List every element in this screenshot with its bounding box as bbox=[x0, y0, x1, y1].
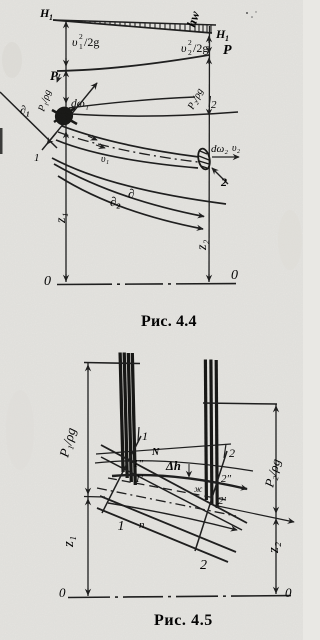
flow arrowhead on axis bbox=[96, 145, 105, 148]
scan noise overlay bbox=[0, 0, 1, 1]
page-edge smudge bbox=[0, 128, 3, 154]
hatching of head-loss wedge bbox=[75, 21, 211, 33]
node 1 label (top of section 1) bbox=[138, 427, 139, 441]
specks near top right bbox=[246, 12, 248, 14]
dashed level line 1'-2' bbox=[108, 478, 226, 500]
wire: right vertical dimension line at section 2 bbox=[208, 26, 211, 282]
energy head line H1-H1 (top edge of loss wedge) bbox=[53, 20, 216, 25]
pipe lower wall (inner) bbox=[100, 496, 236, 552]
node 2 label (top of section 2) bbox=[224, 444, 226, 458]
streamline C2 (upper, fading out) bbox=[69, 97, 195, 108]
streamline crossing section 2 level (line 2) bbox=[71, 112, 238, 116]
wire: datum baseline 0-0 of fig 4.4 bbox=[57, 284, 246, 285]
lower level line with arrow bbox=[108, 503, 237, 530]
dash-dot level line bbox=[97, 488, 236, 516]
wire: datum baseline 0-0 of fig 4.5 bbox=[68, 596, 297, 598]
flow arrowhead on C4 bbox=[88, 136, 97, 140]
cross-section dw1 (dark blob) bbox=[52, 104, 77, 129]
streamline L2 (arrow at right vertical) bbox=[54, 164, 204, 217]
streamline C6 to bottom of dw2 bbox=[56, 140, 198, 168]
velocity arrow v2 bbox=[212, 156, 239, 158]
section line 1-1 through dw1 bbox=[42, 83, 97, 150]
section line 2-2 bbox=[195, 451, 227, 551]
pipe lower wall (outer) bbox=[97, 508, 228, 562]
right dimension line (p2/rho-g and z2) bbox=[275, 404, 277, 594]
water level tick in left piezometer bbox=[84, 363, 140, 364]
streamline C4 to top of dw2 bbox=[62, 126, 199, 157]
pipe upper wall (inner) bbox=[101, 457, 242, 530]
leader line to z2 top bbox=[213, 505, 294, 522]
piezometric line P-P bbox=[57, 55, 209, 71]
left dimension line (p1/rho-g and z1) bbox=[87, 363, 89, 596]
energy line (bottom edge of loss wedge) bbox=[53, 20, 212, 33]
tick at division of left dimension line bbox=[84, 496, 105, 499]
streamline L1 (crosses right vertical) bbox=[52, 158, 226, 204]
pipe upper wall (outer) bbox=[101, 445, 247, 523]
right piezometer tube bundle bbox=[205, 360, 217, 509]
cross-section dw2 (hatched ellipse) bbox=[196, 148, 211, 171]
faint smudges bbox=[2, 42, 22, 78]
section line 1-1 bbox=[102, 436, 141, 513]
level line 1''-2'' bbox=[95, 461, 253, 471]
arrowheads on right vertical bbox=[208, 36, 210, 43]
streamline L3 (arrow at right vertical) bbox=[58, 176, 203, 229]
left piezometer tube bundle bbox=[120, 353, 135, 486]
piezometric line with arrow (thick) bbox=[112, 475, 247, 489]
wire: left vertical dimension line at section 1 bbox=[65, 21, 67, 282]
water level tick in right piezometer bbox=[203, 403, 277, 404]
node 2 label with leader at dw2 bbox=[212, 168, 228, 184]
arrowheads on left vertical bbox=[65, 22, 67, 29]
streamline d1 entering from upper left bbox=[0, 92, 57, 148]
stream tube axis (dash-dot) bbox=[58, 132, 198, 162]
level line N bbox=[96, 444, 231, 454]
